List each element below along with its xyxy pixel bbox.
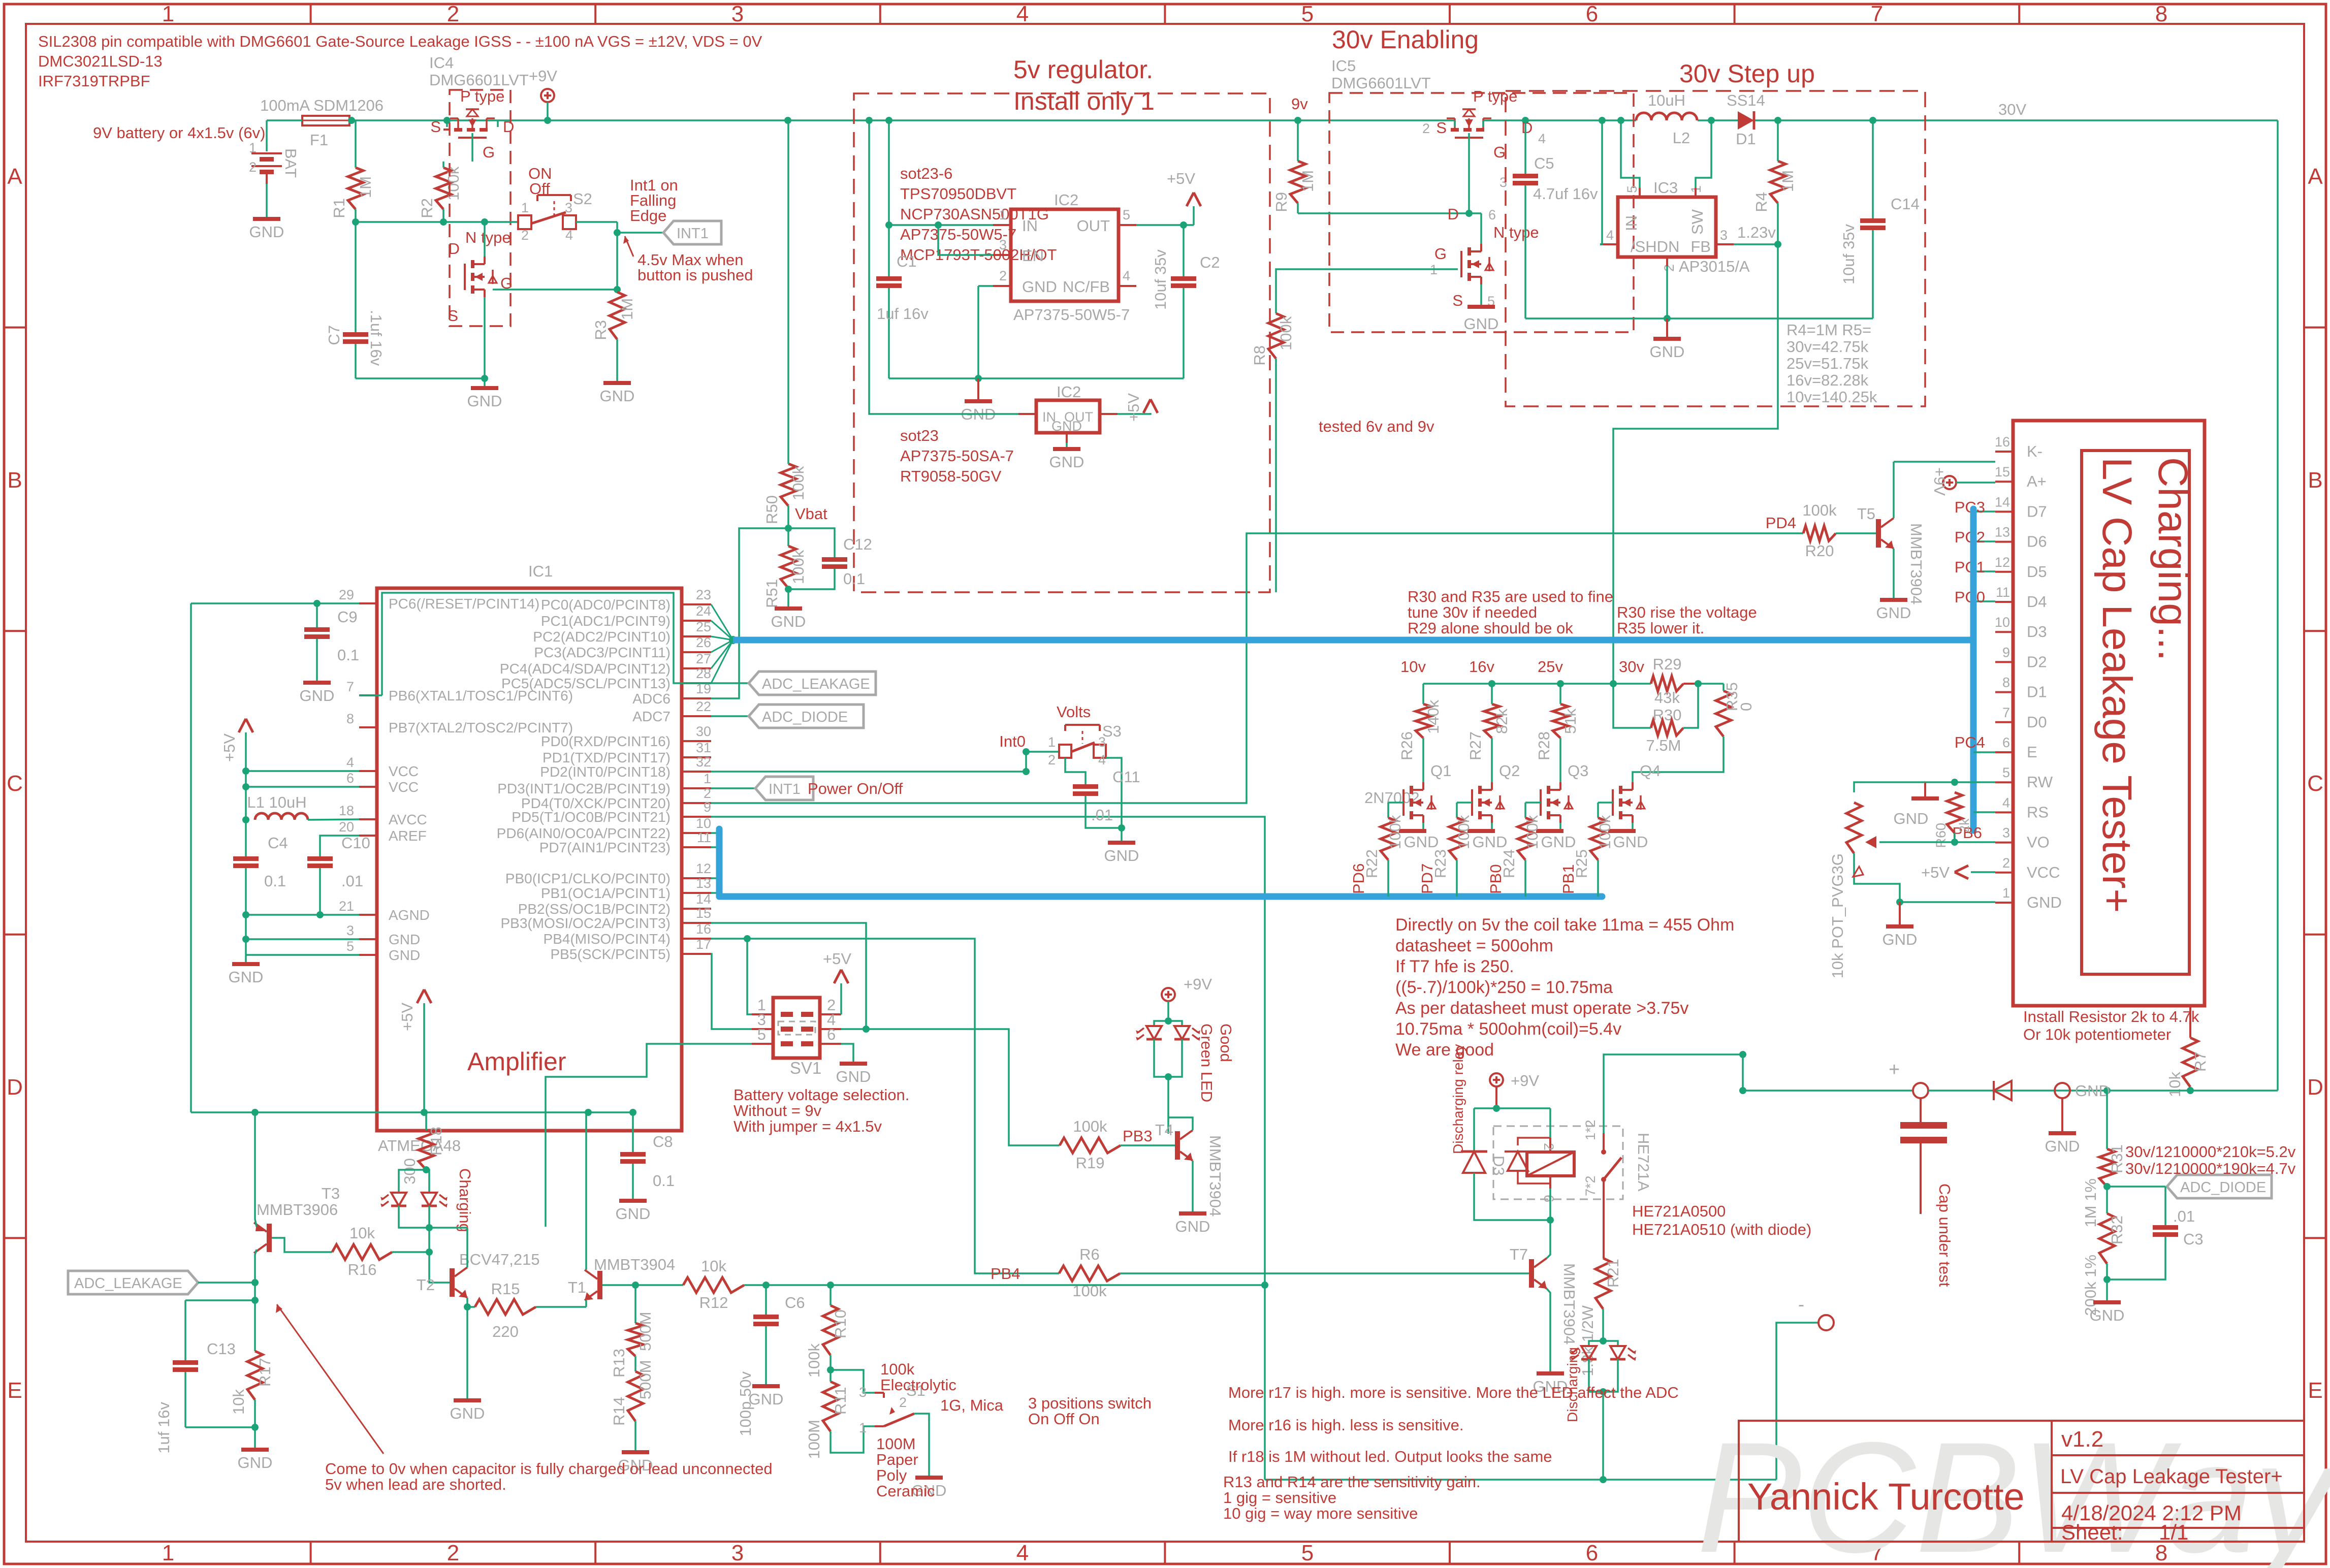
svg-text:PB5(SCK/PCINT5): PB5(SCK/PCINT5)	[551, 946, 671, 962]
svg-text:3: 3	[2002, 825, 2010, 841]
svg-text:1M: 1M	[1779, 170, 1797, 192]
svg-text:VCC: VCC	[389, 763, 419, 779]
svg-text:4: 4	[1098, 752, 1106, 767]
svg-text:10v=140.25k: 10v=140.25k	[1786, 388, 1877, 406]
svg-text:.01: .01	[1091, 806, 1113, 824]
svg-text:R12: R12	[699, 1294, 728, 1311]
svg-text:2: 2	[2002, 855, 2010, 871]
svg-text:R10: R10	[832, 1309, 849, 1338]
svg-text:100k: 100k	[789, 550, 807, 584]
svg-text:0.1: 0.1	[337, 646, 359, 664]
svg-text:16v: 16v	[1469, 658, 1494, 676]
svg-text:E: E	[2027, 743, 2037, 761]
svg-text:C4: C4	[268, 834, 288, 852]
svg-text:100k: 100k	[1802, 501, 1837, 519]
svg-text:We are good: We are good	[1395, 1040, 1494, 1060]
svg-text:LV Cap Leakage Tester+: LV Cap Leakage Tester+	[2060, 1465, 2283, 1488]
svg-text:GND: GND	[600, 387, 635, 405]
svg-text:MMBT3906: MMBT3906	[257, 1201, 338, 1219]
svg-text:0.1: 0.1	[843, 570, 865, 588]
svg-text:18: 18	[339, 803, 354, 818]
svg-text:INT1: INT1	[769, 781, 801, 797]
svg-text:27: 27	[696, 651, 711, 666]
svg-text:R26: R26	[1398, 731, 1416, 760]
svg-text:C5: C5	[1534, 154, 1554, 172]
svg-text:100k: 100k	[1596, 815, 1614, 849]
svg-text:100k: 100k	[805, 1343, 823, 1378]
svg-text:R13: R13	[610, 1349, 628, 1378]
svg-text:R31: R31	[2108, 1144, 2126, 1173]
svg-text:.01: .01	[341, 872, 363, 890]
svg-text:PC3(ADC3/PCINT11): PC3(ADC3/PCINT11)	[534, 645, 671, 660]
svg-text:5: 5	[1624, 185, 1640, 193]
svg-text:G: G	[1493, 143, 1506, 161]
svg-text:1: 1	[1048, 734, 1056, 750]
svg-text:MMBT3904: MMBT3904	[1560, 1263, 1578, 1345]
svg-text:PC4: PC4	[1955, 733, 1985, 751]
svg-text:C3: C3	[2183, 1230, 2204, 1248]
svg-text:1M: 1M	[618, 298, 636, 320]
svg-text:5: 5	[1123, 207, 1130, 222]
svg-text:GND: GND	[238, 1454, 273, 1471]
svg-text:Or 10k potentiometer: Or 10k potentiometer	[2023, 1026, 2171, 1043]
svg-text:6: 6	[1586, 1541, 1598, 1565]
svg-text:GND: GND	[836, 1068, 871, 1085]
svg-text:HE721A0500: HE721A0500	[1632, 1202, 1726, 1220]
svg-text:ADC6: ADC6	[632, 691, 671, 707]
svg-text:3: 3	[346, 923, 354, 938]
svg-text:R28: R28	[1535, 731, 1553, 760]
svg-text:R60: R60	[1933, 823, 1949, 848]
svg-text:300: 300	[401, 1158, 419, 1185]
svg-text:GND: GND	[1650, 343, 1685, 361]
svg-text:R17: R17	[256, 1358, 274, 1387]
svg-text:C1: C1	[897, 252, 917, 270]
svg-text:IC3: IC3	[1653, 179, 1678, 197]
svg-text:GND: GND	[389, 932, 420, 947]
svg-text:29: 29	[339, 587, 354, 602]
svg-text:R8: R8	[1251, 345, 1268, 366]
svg-text:PD5(T1/OC0B/PCINT21): PD5(T1/OC0B/PCINT21)	[512, 809, 671, 825]
svg-text:PD2(INT0/PCINT18): PD2(INT0/PCINT18)	[540, 764, 671, 780]
svg-text:D: D	[503, 118, 514, 136]
svg-text:GND: GND	[1022, 278, 1057, 296]
svg-text:S2: S2	[573, 190, 592, 208]
svg-text:P type: P type	[460, 87, 504, 105]
svg-text:BCV47,215: BCV47,215	[459, 1251, 540, 1268]
svg-text:INT1: INT1	[677, 226, 709, 242]
svg-text:MMBT3904: MMBT3904	[1907, 523, 1925, 604]
svg-text:AGND: AGND	[389, 907, 430, 923]
svg-text:GND: GND	[1104, 847, 1139, 865]
svg-text:Edge: Edge	[630, 207, 666, 225]
svg-text:GND: GND	[450, 1404, 485, 1422]
svg-text:C: C	[2307, 771, 2323, 796]
svg-text:PC0: PC0	[1955, 588, 1985, 606]
svg-text:+9V: +9V	[1931, 467, 1949, 496]
svg-text:Sheet:: Sheet:	[2061, 1520, 2123, 1544]
svg-text:16: 16	[696, 921, 711, 937]
svg-text:T3: T3	[322, 1185, 340, 1202]
svg-text:9: 9	[704, 799, 711, 815]
svg-text:D: D	[1448, 205, 1459, 223]
svg-text:R51: R51	[763, 579, 781, 608]
svg-text:EN: EN	[1022, 247, 1044, 265]
svg-text:10 gig = way more sensitive: 10 gig = way more sensitive	[1223, 1505, 1418, 1522]
svg-text:PC2: PC2	[1955, 528, 1985, 546]
svg-text:SS14: SS14	[1727, 91, 1765, 109]
svg-text:A+: A+	[2027, 472, 2047, 490]
svg-text:Amplifier: Amplifier	[467, 1047, 566, 1076]
svg-text:12: 12	[1995, 555, 2010, 570]
svg-text:PD6(AIN0/OC0A/PCINT22): PD6(AIN0/OC0A/PCINT22)	[497, 825, 671, 841]
svg-text:HE721A: HE721A	[1635, 1133, 1652, 1192]
svg-text:GND: GND	[1876, 604, 1911, 622]
svg-text:51k: 51k	[1561, 709, 1579, 734]
svg-text:N type: N type	[465, 229, 511, 246]
svg-text:15: 15	[696, 906, 711, 921]
svg-text:PC1: PC1	[1955, 558, 1985, 576]
svg-text:4: 4	[565, 228, 573, 243]
svg-text:3: 3	[999, 237, 1007, 252]
svg-text:4: 4	[1016, 2, 1029, 26]
svg-text:Charging: Charging	[456, 1168, 474, 1232]
svg-text:10uH: 10uH	[1648, 91, 1685, 109]
svg-text:100k: 100k	[1277, 316, 1295, 350]
svg-text:IN: IN	[1622, 215, 1640, 231]
svg-text:100k: 100k	[1386, 815, 1404, 849]
svg-text:C2: C2	[1200, 253, 1220, 271]
svg-text:PD4: PD4	[1766, 514, 1796, 532]
svg-text:If T7 hfe is 250.: If T7 hfe is 250.	[1395, 957, 1514, 976]
svg-text:Int0: Int0	[999, 732, 1026, 750]
svg-text:GND: GND	[1464, 315, 1499, 333]
svg-text:AREF: AREF	[389, 828, 427, 844]
svg-text:82k: 82k	[1493, 709, 1511, 734]
svg-text:4: 4	[346, 755, 354, 770]
svg-text:12: 12	[696, 861, 711, 876]
svg-text:GND: GND	[1049, 453, 1084, 471]
svg-text:Discharging relay: Discharging relay	[1450, 1044, 1466, 1154]
svg-text:D: D	[7, 1075, 23, 1100]
svg-text:NC/FB: NC/FB	[1063, 278, 1110, 296]
svg-text:GND: GND	[300, 687, 335, 705]
svg-text:8: 8	[346, 711, 354, 726]
svg-text:F1: F1	[310, 131, 328, 149]
svg-text:R13 and R14 are the sensitivit: R13 and R14 are the sensitivity gain.	[1223, 1473, 1481, 1491]
svg-text:PB1(OC1A/PCINT1): PB1(OC1A/PCINT1)	[541, 885, 671, 901]
svg-text:IC4: IC4	[429, 54, 454, 72]
svg-text:10: 10	[696, 816, 711, 831]
svg-text:N type: N type	[1493, 223, 1539, 241]
svg-text:1/1: 1/1	[2159, 1520, 2188, 1544]
svg-text:/SHDN: /SHDN	[1631, 238, 1679, 255]
svg-text:GND: GND	[771, 613, 806, 630]
svg-text:100M: 100M	[805, 1420, 823, 1459]
svg-text:IC2: IC2	[1054, 191, 1078, 209]
svg-text:4: 4	[1123, 268, 1130, 283]
svg-text:Install Resistor 2k to 4.7k: Install Resistor 2k to 4.7k	[2023, 1008, 2199, 1026]
svg-text:IRF7319TRPBF: IRF7319TRPBF	[38, 72, 150, 90]
svg-text:+5V: +5V	[1167, 170, 1195, 187]
svg-text:2: 2	[447, 2, 459, 26]
svg-text:D3: D3	[1490, 1156, 1508, 1176]
svg-text:1: 1	[2002, 885, 2010, 901]
svg-text:C14: C14	[1891, 195, 1920, 213]
svg-text:Battery voltage selection.: Battery voltage selection.	[733, 1086, 909, 1104]
svg-text:9v: 9v	[1291, 95, 1308, 113]
svg-text:RW: RW	[2027, 773, 2053, 791]
svg-text:D4: D4	[2027, 593, 2047, 611]
svg-text:30v Enabling: 30v Enabling	[1332, 25, 1479, 54]
svg-text:140k: 140k	[1424, 699, 1442, 734]
svg-text:0.1: 0.1	[653, 1172, 675, 1190]
svg-text:PC2(ADC2/PCINT10): PC2(ADC2/PCINT10)	[533, 629, 671, 645]
svg-text:5: 5	[757, 1026, 766, 1043]
svg-text:AP7375-50SA-7: AP7375-50SA-7	[900, 447, 1014, 465]
svg-text:14: 14	[1995, 494, 2010, 509]
svg-text:8: 8	[2155, 2, 2167, 26]
svg-text:With jumper = 4x1.5v: With jumper = 4x1.5v	[733, 1117, 882, 1135]
svg-text:.1uf 16v: .1uf 16v	[367, 310, 385, 366]
svg-text:100k: 100k	[1523, 815, 1541, 849]
svg-text:SIL2308 pin compatible with DM: SIL2308 pin compatible with DMG6601 Gate…	[38, 33, 762, 50]
svg-text:3: 3	[731, 1541, 744, 1565]
svg-text:3: 3	[1098, 734, 1106, 750]
svg-text:Come to 0v when capacitor is f: Come to 0v when capacitor is fully charg…	[325, 1460, 773, 1478]
svg-text:PB1: PB1	[1559, 864, 1577, 894]
svg-text:R4=1M R5=: R4=1M R5=	[1786, 321, 1871, 339]
svg-text:Good: Good	[1217, 1023, 1235, 1062]
svg-text:28: 28	[696, 666, 711, 681]
svg-text:1: 1	[859, 1420, 867, 1435]
svg-text:2: 2	[521, 228, 529, 243]
svg-text:If r18 is 1M without led. Outp: If r18 is 1M without led. Output looks t…	[1228, 1448, 1552, 1465]
svg-text:A: A	[2308, 164, 2323, 189]
svg-text:100k: 100k	[789, 466, 807, 500]
svg-text:9: 9	[2002, 645, 2010, 660]
svg-text:PB4: PB4	[991, 1265, 1020, 1283]
svg-text:T7: T7	[1510, 1245, 1528, 1263]
svg-text:VO: VO	[2027, 834, 2050, 851]
svg-text:6: 6	[1541, 1195, 1556, 1202]
svg-text:C: C	[7, 771, 23, 796]
svg-text:T5: T5	[1857, 505, 1875, 523]
svg-text:Cap under test: Cap under test	[1936, 1183, 1954, 1287]
svg-text:D1: D1	[1736, 130, 1756, 148]
svg-text:R4: R4	[1752, 192, 1770, 212]
svg-text:1M 1%: 1M 1%	[2082, 1178, 2099, 1227]
svg-text:PD1(TXD/PCINT17): PD1(TXD/PCINT17)	[542, 750, 671, 765]
svg-text:6: 6	[346, 771, 354, 786]
svg-text:5: 5	[1301, 1541, 1314, 1565]
svg-text:25v=51.75k: 25v=51.75k	[1786, 355, 1869, 372]
svg-text:22: 22	[696, 699, 711, 714]
svg-text:R21: R21	[1604, 1259, 1622, 1288]
svg-text:S: S	[1452, 292, 1463, 309]
svg-text:10k POT_PVG3G: 10k POT_PVG3G	[1829, 853, 1846, 978]
svg-text:10uf 35v: 10uf 35v	[1840, 224, 1858, 284]
svg-text:25v: 25v	[1538, 658, 1563, 676]
svg-text:3: 3	[1720, 228, 1728, 243]
svg-text:1G, Mica: 1G, Mica	[940, 1396, 1004, 1414]
svg-text:More r17 is high. more is sens: More r17 is high. more is sensitive. Mor…	[1228, 1384, 1679, 1401]
svg-text:GND: GND	[1894, 810, 1929, 827]
svg-text:R18: R18	[427, 1127, 445, 1156]
svg-text:PB3: PB3	[1123, 1127, 1153, 1145]
svg-text:G: G	[483, 143, 495, 161]
svg-text:30V: 30V	[1998, 101, 2026, 118]
svg-text:11: 11	[697, 830, 711, 845]
svg-text:ADC_LEAKAGE: ADC_LEAKAGE	[74, 1275, 182, 1292]
svg-text:4: 4	[1606, 228, 1614, 243]
svg-text:23: 23	[696, 587, 711, 602]
svg-text:GND: GND	[229, 968, 264, 986]
svg-text:6: 6	[2002, 735, 2010, 750]
svg-text:Install only 1: Install only 1	[1013, 87, 1155, 115]
svg-text:IN: IN	[1022, 217, 1038, 235]
svg-text:SV1: SV1	[790, 1059, 821, 1077]
svg-text:GND: GND	[2027, 893, 2062, 911]
svg-text:R35 lower it.: R35 lower it.	[1617, 619, 1704, 637]
svg-text:D1: D1	[2027, 683, 2047, 701]
svg-text:1 gig = sensitive: 1 gig = sensitive	[1223, 1489, 1336, 1507]
svg-text:10k: 10k	[349, 1224, 375, 1242]
svg-text:HE721A0510 (with diode): HE721A0510 (with diode)	[1632, 1221, 1811, 1238]
svg-text:220: 220	[492, 1323, 519, 1340]
svg-text:4.7uf 16v: 4.7uf 16v	[1533, 185, 1598, 203]
svg-text:1: 1	[999, 207, 1007, 222]
svg-text:100mA SDM1206: 100mA SDM1206	[260, 97, 384, 114]
svg-text:+5V: +5V	[1125, 393, 1142, 422]
svg-text:3: 3	[731, 2, 744, 26]
svg-text:Charging...: Charging...	[2150, 457, 2196, 661]
svg-text:PD6: PD6	[1350, 863, 1367, 894]
svg-text:3: 3	[859, 1385, 867, 1400]
svg-text:Poly: Poly	[876, 1466, 907, 1484]
svg-text:B: B	[2308, 468, 2322, 493]
svg-text:+: +	[1889, 1059, 1900, 1080]
svg-text:2: 2	[447, 1541, 459, 1565]
svg-text:100k: 100k	[880, 1360, 915, 1378]
svg-text:ADC_DIODE: ADC_DIODE	[762, 709, 848, 725]
svg-text:1uf 16v: 1uf 16v	[155, 1402, 173, 1454]
svg-text:7*2: 7*2	[1583, 1175, 1598, 1196]
svg-text:S: S	[430, 118, 441, 136]
svg-text:R15: R15	[491, 1280, 520, 1298]
svg-text:PC0(ADC0/PCINT8): PC0(ADC0/PCINT8)	[541, 597, 671, 613]
svg-text:2: 2	[999, 268, 1007, 283]
svg-text:R7: R7	[2191, 1051, 2209, 1072]
svg-text:3: 3	[565, 200, 572, 215]
svg-text:GND: GND	[2045, 1137, 2080, 1155]
svg-text:D7: D7	[2027, 502, 2047, 520]
svg-text:26: 26	[696, 635, 711, 650]
svg-text:1M: 1M	[357, 176, 374, 198]
svg-text:13: 13	[696, 876, 711, 891]
svg-text:B: B	[7, 468, 22, 493]
svg-text:R19: R19	[1076, 1154, 1105, 1172]
svg-text:GND: GND	[1404, 833, 1439, 851]
svg-text:PD7(AIN1/PCINT23): PD7(AIN1/PCINT23)	[539, 840, 671, 855]
svg-text:7: 7	[1871, 2, 1883, 26]
svg-text:7: 7	[346, 679, 354, 694]
svg-text:GND: GND	[616, 1205, 651, 1223]
svg-text:1: 1	[249, 140, 257, 155]
svg-text:v1.2: v1.2	[2061, 1427, 2103, 1452]
svg-text:500M: 500M	[636, 1360, 654, 1399]
svg-text:MMBT3904: MMBT3904	[594, 1256, 675, 1273]
svg-text:15: 15	[1995, 464, 2010, 479]
svg-text:PD7: PD7	[1418, 863, 1436, 894]
svg-text:AP7375-50W5-7: AP7375-50W5-7	[1013, 306, 1130, 324]
svg-text:5: 5	[2002, 765, 2010, 780]
svg-text:D: D	[1521, 119, 1533, 137]
svg-text:C7: C7	[325, 325, 343, 345]
svg-text:R29 alone should be ok: R29 alone should be ok	[1408, 619, 1573, 637]
svg-text:R50: R50	[763, 495, 781, 524]
svg-text:+9V: +9V	[1184, 975, 1212, 993]
svg-text:3 positions switch: 3 positions switch	[1028, 1394, 1152, 1412]
svg-text:C13: C13	[207, 1340, 236, 1358]
svg-text:R11: R11	[832, 1387, 849, 1415]
svg-text:S: S	[1436, 119, 1447, 137]
svg-text:C6: C6	[785, 1294, 805, 1311]
svg-text:.01: .01	[2173, 1207, 2195, 1225]
svg-text:OUT: OUT	[1077, 217, 1110, 235]
svg-text:datasheet = 500ohm: datasheet = 500ohm	[1395, 936, 1553, 955]
svg-text:21: 21	[339, 899, 354, 914]
svg-text:100k: 100k	[1455, 815, 1473, 849]
svg-text:PC3: PC3	[1955, 498, 1985, 516]
svg-text:GND: GND	[467, 392, 502, 410]
svg-text:On Off On: On Off On	[1028, 1410, 1100, 1428]
svg-text:AVCC: AVCC	[389, 812, 427, 827]
svg-text:30v: 30v	[1619, 658, 1644, 676]
svg-text:Green LED: Green LED	[1198, 1023, 1216, 1102]
svg-text:5: 5	[346, 939, 354, 954]
svg-text:10: 10	[1995, 615, 2010, 630]
svg-text:C11: C11	[1112, 768, 1140, 786]
svg-text:6: 6	[827, 1026, 836, 1043]
svg-text:20: 20	[339, 819, 354, 835]
svg-text:4: 4	[2002, 795, 2010, 810]
svg-text:T1: T1	[568, 1278, 586, 1296]
svg-text:GND: GND	[1051, 419, 1082, 434]
svg-text:PB0: PB0	[1487, 864, 1505, 894]
svg-text:PB0(ICP1/CLKO/PCINT0): PB0(ICP1/CLKO/PCINT0)	[505, 871, 671, 886]
svg-text:1*2: 1*2	[1583, 1119, 1598, 1140]
svg-text:RT9058-50GV: RT9058-50GV	[900, 467, 1002, 485]
svg-text:+5V: +5V	[1921, 863, 1950, 881]
svg-text:Paper: Paper	[876, 1451, 918, 1468]
svg-text:1uf 16v: 1uf 16v	[877, 305, 929, 323]
svg-text:Q3: Q3	[1568, 762, 1588, 780]
svg-text:T2: T2	[417, 1276, 435, 1294]
svg-text:DMC3021LSD-13: DMC3021LSD-13	[38, 52, 163, 70]
svg-text:1: 1	[521, 200, 529, 215]
svg-text:R20: R20	[1805, 542, 1834, 560]
svg-text:K-: K-	[2027, 442, 2042, 460]
svg-text:43k: 43k	[1654, 689, 1680, 707]
svg-text:1: 1	[162, 1541, 174, 1565]
svg-text:Q4: Q4	[1640, 762, 1661, 780]
svg-text:DMG6601LVT: DMG6601LVT	[1331, 74, 1431, 92]
svg-text:500M: 500M	[636, 1311, 654, 1351]
svg-text:2k: 2k	[1957, 818, 1972, 833]
svg-text:+9V: +9V	[1511, 1072, 1539, 1090]
svg-text:R30: R30	[1653, 706, 1682, 724]
